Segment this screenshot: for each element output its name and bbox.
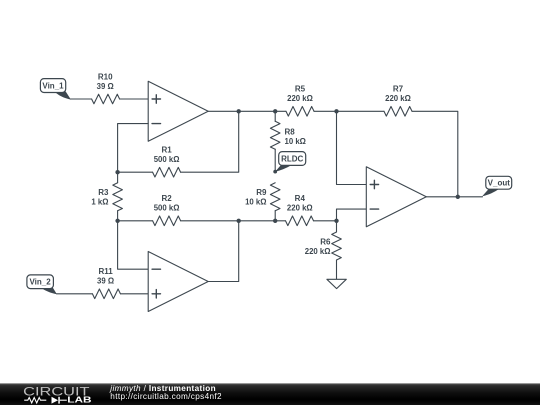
wire op-amp OA1 output row xyxy=(208,110,286,112)
wire R7 to output column xyxy=(412,111,458,197)
svg-text:39 Ω: 39 Ω xyxy=(97,277,114,286)
wire row C center xyxy=(239,220,286,222)
svg-text:220 kΩ: 220 kΩ xyxy=(305,247,331,256)
wire Vin_1 to R10 xyxy=(71,98,92,100)
resistor R11 xyxy=(92,289,120,299)
op-amp OA3 xyxy=(366,167,426,227)
label R3 value xyxy=(91,188,109,207)
svg-text:LAB: LAB xyxy=(67,395,91,405)
resistor R4 xyxy=(286,216,314,226)
logo resistor squiggle xyxy=(24,398,46,403)
wire op-amp OA1 - feedback xyxy=(118,124,149,173)
wire op-amp OA2 feedback xyxy=(208,221,239,282)
svg-text:R5: R5 xyxy=(295,85,306,94)
ground xyxy=(327,279,346,288)
node junction 3 xyxy=(334,109,338,113)
svg-text:1 kΩ: 1 kΩ xyxy=(91,198,108,207)
svg-text:R10: R10 xyxy=(98,72,113,81)
wire R4 to R6 node xyxy=(314,220,337,222)
svg-text:220 kΩ: 220 kΩ xyxy=(287,204,313,213)
wire R5 to R7 node xyxy=(314,110,384,112)
label R6 value xyxy=(305,238,331,257)
svg-text:R2: R2 xyxy=(161,194,172,203)
wire R10 to op-amp OA1 + xyxy=(120,98,149,100)
svg-text:10 kΩ: 10 kΩ xyxy=(285,137,306,146)
node V_out flag xyxy=(482,176,511,196)
wire op-amp OA2 - input xyxy=(118,221,149,269)
svg-text:Vin_1: Vin_1 xyxy=(42,82,64,91)
node junction 8 xyxy=(334,219,338,223)
node junction 4 xyxy=(115,170,119,174)
resistor R1 xyxy=(153,167,181,177)
svg-text:R4: R4 xyxy=(295,194,306,203)
label R1 value xyxy=(154,146,180,165)
svg-text:Vin_2: Vin_2 xyxy=(29,278,51,287)
svg-text:R9: R9 xyxy=(256,188,267,197)
label R7 value xyxy=(385,85,411,104)
resistor R9 xyxy=(270,183,280,211)
node junction 1 xyxy=(237,109,241,113)
wire R1 to row A xyxy=(181,111,239,172)
resistor R5 xyxy=(286,107,314,117)
op-amp OA1 xyxy=(148,81,208,141)
node junction 9 xyxy=(456,195,460,199)
svg-text:R11: R11 xyxy=(98,267,113,276)
svg-text:500 kΩ: 500 kΩ xyxy=(154,155,180,164)
resistor R10 xyxy=(92,94,120,104)
svg-text:R7: R7 xyxy=(393,85,404,94)
resistor R3 xyxy=(117,172,119,183)
label R9 value xyxy=(245,188,267,207)
svg-text:RLDC: RLDC xyxy=(281,154,303,163)
wire op-amp OA3 output to V_out xyxy=(426,196,482,198)
label R8 value xyxy=(285,128,306,147)
label R2 value xyxy=(154,194,180,213)
wire R11 to op-amp OA2 + xyxy=(120,293,148,295)
svg-text:http://circuitlab.com/cps4nf2: http://circuitlab.com/cps4nf2 xyxy=(110,392,222,401)
wire R2 to feedback node xyxy=(181,220,239,222)
svg-text:V_out: V_out xyxy=(488,179,511,188)
node junction 2 xyxy=(273,109,277,113)
node RLDC junction xyxy=(273,170,277,174)
resistor R7 xyxy=(384,107,412,117)
wire op-amp OA3 - input xyxy=(337,209,367,221)
node RLDC flag xyxy=(275,152,306,172)
wire R1 left lead xyxy=(118,171,153,173)
op-amp OA2 xyxy=(148,252,208,312)
resistor R6 xyxy=(336,221,338,232)
wire Vin_2 to R11 xyxy=(57,293,93,295)
node Vin_1 flag xyxy=(40,79,71,100)
logo diode xyxy=(52,397,60,404)
svg-text:220 kΩ: 220 kΩ xyxy=(385,94,411,103)
svg-text:R1: R1 xyxy=(161,146,172,155)
resistor R2 xyxy=(153,216,181,226)
label R11 value xyxy=(97,267,114,286)
svg-text:R6: R6 xyxy=(320,238,331,247)
node junction 7 xyxy=(273,219,277,223)
label R10 value xyxy=(97,72,114,91)
wire R2 left lead xyxy=(118,220,153,222)
svg-text:500 kΩ: 500 kΩ xyxy=(154,204,180,213)
svg-text:R3: R3 xyxy=(98,188,109,197)
wire op-amp OA3 + input xyxy=(337,111,367,184)
svg-text:10 kΩ: 10 kΩ xyxy=(245,198,266,207)
node junction 5 xyxy=(115,219,119,223)
resistor R8 xyxy=(274,111,276,121)
svg-text:R8: R8 xyxy=(285,128,296,137)
node junction 6 xyxy=(237,219,241,223)
label R4 value xyxy=(287,194,313,213)
svg-text:220 kΩ: 220 kΩ xyxy=(287,94,313,103)
label R5 value xyxy=(287,85,313,104)
node Vin_2 flag xyxy=(27,275,57,294)
svg-text:39 Ω: 39 Ω xyxy=(97,82,114,91)
